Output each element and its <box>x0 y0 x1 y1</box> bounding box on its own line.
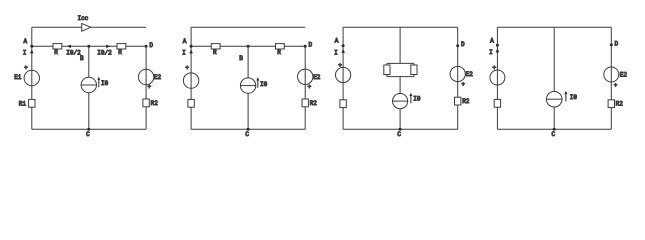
wire: parallel block bottom rail <box>387 74 414 76</box>
svg-text:C: C <box>551 131 555 138</box>
wire: middle branch from top rail to current source <box>553 27 555 91</box>
svg-text:I0/2: I0/2 <box>97 49 112 56</box>
resistor R1 <box>19 99 35 107</box>
node A <box>490 37 499 47</box>
wire: current source to bottom rail <box>88 93 90 130</box>
svg-text:I: I <box>334 49 338 56</box>
wire: middle branch B to current source <box>247 46 249 78</box>
svg-text:E2: E2 <box>313 74 321 81</box>
current arrow I0/2 (right, pointing right) <box>97 45 112 57</box>
wire: left branch vertical <box>496 27 498 129</box>
svg-text:+: + <box>185 65 189 72</box>
svg-text:A: A <box>335 37 339 44</box>
voltage source E1 <box>14 65 39 86</box>
svg-text:+: + <box>147 84 151 91</box>
wire: current source to bottom rail <box>399 109 401 130</box>
resistor (left, unlabeled) <box>494 99 500 107</box>
current arrow I0 <box>564 91 577 102</box>
resistor R2 <box>608 100 623 108</box>
voltage source E2 <box>450 66 473 88</box>
current arrow I0/2 (left, pointing left) <box>66 45 81 57</box>
svg-text:C: C <box>397 131 401 138</box>
svg-text:+: + <box>461 81 465 88</box>
wire: left branch vertical (top rail to bottom rail) <box>31 27 33 129</box>
svg-text:B: B <box>80 55 84 62</box>
svg-text:I0/2: I0/2 <box>66 49 81 56</box>
wire: right branch vertical (D down to bottom rail) <box>145 46 147 129</box>
node D <box>304 41 313 48</box>
svg-text:D: D <box>149 42 153 49</box>
svg-text:E2: E2 <box>620 71 628 78</box>
current arrow I at node A <box>23 49 34 56</box>
label Icc <box>77 15 88 22</box>
svg-text:D: D <box>461 41 465 48</box>
svg-text:R2: R2 <box>310 100 318 107</box>
resistor (parallel right) <box>411 65 417 75</box>
wire: left branch vertical <box>190 27 192 129</box>
resistor (left, unlabeled) <box>188 99 194 107</box>
svg-text:R2: R2 <box>616 100 624 107</box>
svg-text:C: C <box>86 131 90 138</box>
node C <box>397 128 401 138</box>
node A <box>335 37 345 47</box>
wire: parallel block to current source <box>399 77 401 94</box>
current arrow I at node A <box>489 48 499 56</box>
resistor R2 <box>143 99 158 107</box>
node A <box>183 38 193 48</box>
current source I0 <box>81 77 96 92</box>
wire: main horizontal A-B-D <box>32 45 146 47</box>
svg-text:I: I <box>23 50 27 57</box>
wire: bottom rail <box>497 128 611 130</box>
svg-text:E1: E1 <box>14 74 22 81</box>
svg-text:A: A <box>490 37 494 44</box>
svg-text:R: R <box>213 49 217 56</box>
svg-text:+: + <box>338 62 342 69</box>
svg-text:+: + <box>24 65 28 72</box>
node C <box>551 128 555 138</box>
resistor (parallel left) <box>384 65 390 75</box>
svg-text:A: A <box>23 38 27 45</box>
node D <box>610 40 619 47</box>
node B <box>80 45 90 62</box>
resistor (left, unlabeled) <box>340 100 346 108</box>
current arrow I0 <box>97 77 108 88</box>
current arrow I0 <box>256 77 267 88</box>
svg-text:I0: I0 <box>570 94 578 101</box>
svg-text:+: + <box>492 64 496 71</box>
wire: top rail <box>497 26 611 28</box>
wire: current source to bottom rail <box>247 93 249 129</box>
svg-text:+: + <box>614 82 618 89</box>
wire: top rail <box>191 26 305 28</box>
svg-text:A: A <box>183 38 187 45</box>
voltage source (suppressed, unlabeled) <box>183 65 198 89</box>
svg-text:B: B <box>239 55 243 62</box>
svg-text:R1: R1 <box>19 100 27 107</box>
current source I0 <box>393 94 408 109</box>
node D <box>456 41 465 48</box>
svg-text:D: D <box>309 41 313 48</box>
node C <box>245 128 249 138</box>
svg-text:R2: R2 <box>151 100 159 107</box>
svg-text:R: R <box>54 49 58 56</box>
wire: parallel block top rail <box>387 63 414 65</box>
node C <box>86 128 90 138</box>
svg-text:R: R <box>118 49 122 56</box>
svg-text:I0: I0 <box>413 96 421 103</box>
wire: bottom rail <box>191 128 305 130</box>
voltage source E2 <box>138 69 161 90</box>
wire: middle branch from top rail down <box>399 27 401 63</box>
resistor R2 <box>302 99 317 107</box>
svg-text:Icc: Icc <box>77 15 88 22</box>
wire: bottom rail <box>343 128 458 130</box>
svg-text:E2: E2 <box>466 71 474 78</box>
current arrow I at node A <box>334 49 345 57</box>
voltage source (unlabeled) <box>336 62 351 83</box>
wire: right branch vertical <box>304 46 306 129</box>
current source I0 <box>546 91 562 107</box>
svg-text:R2: R2 <box>462 98 470 105</box>
svg-text:+: + <box>308 83 312 90</box>
wire: top rail <box>343 26 458 28</box>
wire: middle branch B to current source <box>88 46 90 77</box>
wire: main horizontal A-B-D <box>191 45 305 47</box>
wire: bottom rail <box>32 128 146 130</box>
svg-text:I: I <box>489 49 493 56</box>
node A <box>23 38 33 48</box>
wire: right branch vertical <box>610 27 612 129</box>
wire: left branch vertical <box>342 27 344 129</box>
wire: right branch vertical <box>457 27 459 129</box>
resistor R (left) <box>53 44 62 57</box>
svg-text:R: R <box>277 49 281 56</box>
current arrow I at node A <box>182 49 193 56</box>
svg-text:I0: I0 <box>260 81 268 88</box>
current source I0 <box>240 78 255 93</box>
voltage source E2 <box>298 69 321 90</box>
svg-text:E2: E2 <box>154 74 162 81</box>
resistor R (right) <box>276 44 285 57</box>
svg-text:I0: I0 <box>101 80 109 87</box>
wire: top rail (Icc branch) <box>32 26 146 28</box>
node B <box>239 45 249 62</box>
svg-text:D: D <box>615 40 619 47</box>
resistor R (left) <box>211 44 220 57</box>
svg-text:C: C <box>245 131 249 138</box>
wire: current source to bottom rail <box>553 107 555 129</box>
current arrow I0 <box>409 93 421 104</box>
resistor R (right) <box>117 44 126 57</box>
current arrow Icc <box>82 23 91 31</box>
node D <box>145 42 154 49</box>
svg-text:I: I <box>182 50 186 57</box>
resistor R2 <box>455 97 470 105</box>
voltage source (unlabeled) <box>490 64 505 85</box>
voltage source E2 <box>604 67 628 89</box>
